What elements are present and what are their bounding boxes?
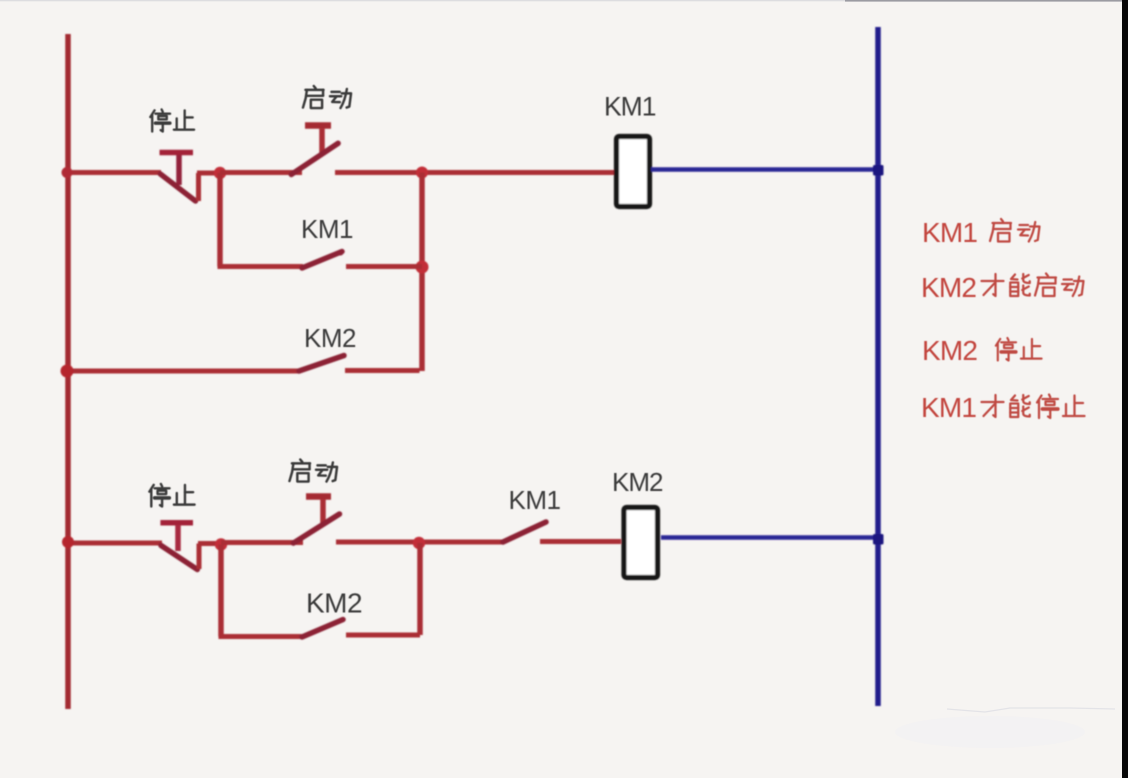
svg-text:KM2: KM2: [921, 272, 976, 303]
wire: KM1 aux branch left: [218, 264, 304, 269]
pushbutton SB3 stem: [175, 525, 181, 551]
top edge scan line: [0, 0, 1128, 1]
wire: start button to KM1 coil: [335, 170, 614, 175]
node: blue junction top: [873, 165, 884, 176]
wire: vertical x220 down to KM1 branch: [217, 173, 223, 267]
wire: KM2 aux branch bottom right: [346, 633, 420, 638]
node J3: [416, 261, 429, 274]
contact KM2 interlock NO blade: [299, 356, 344, 372]
contact KM1 aux blade tip dot: [338, 250, 344, 256]
svg-text:KM1: KM1: [922, 217, 977, 248]
label 停止 (top stop button): [150, 109, 194, 131]
wire: KM1 coil to right rail (blue): [651, 167, 878, 172]
svg-text:KM1: KM1: [604, 92, 656, 122]
wire: top rung left segment: [66, 170, 161, 175]
contact KM1 aux NO blade: [302, 252, 342, 269]
coil KM1: [617, 137, 650, 207]
node J2: [416, 167, 428, 179]
pushbutton SB4 NO blade: [293, 514, 339, 543]
label 停止 (bottom stop button): [149, 484, 194, 507]
right edge black border strip: [1122, 0, 1128, 778]
coil KM2: [624, 508, 658, 578]
annotation line 4: KM1才能停止: [921, 392, 1085, 423]
wire: stub to junction J4: [198, 541, 223, 546]
wire: KM2 aux branch left vertical: [218, 545, 224, 637]
node: left rail / KM2 branch: [61, 365, 74, 378]
node J5: [413, 537, 425, 549]
node J4: [215, 538, 227, 550]
svg-text:KM1: KM1: [509, 485, 561, 515]
wire: KM2 aux branch bottom left: [219, 634, 304, 639]
svg-text:KM1: KM1: [921, 392, 976, 423]
pushbutton SB3 停止 actuator bar: [160, 520, 193, 526]
pushbutton SB1 NC blade: [160, 174, 195, 201]
pushbutton SB1 stem: [176, 155, 182, 185]
node: left rail / top rung: [62, 167, 73, 178]
pushbutton SB2 stem: [319, 128, 325, 154]
wire: SB4 to KM1 contact: [336, 540, 504, 545]
label 启动 (bottom start button): [289, 459, 337, 481]
pushbutton SB1 停止 actuator bar: [160, 150, 194, 156]
watermark smudge (faint): [895, 716, 1085, 748]
right power rail (blue): [875, 27, 881, 706]
watermark scratch line (faint): [947, 708, 1115, 712]
svg-text:KM2: KM2: [306, 588, 362, 619]
contact KM2 aux NO blade: [302, 620, 343, 638]
wire: vertical x422 down to KM2 branch: [419, 173, 425, 372]
wire: KM2 aux branch right vertical: [417, 543, 423, 635]
wire: J4 to start button SB4: [221, 540, 303, 545]
wire: KM2 coil to right rail (blue): [661, 535, 878, 540]
annotation line 3: KM2 停止: [922, 335, 1042, 366]
pushbutton SB2 启动 actuator bar: [305, 122, 331, 129]
svg-text:KM1: KM1: [301, 214, 353, 244]
wire: stub to junction: [197, 171, 222, 176]
annotation line 1: KM1 启动: [922, 217, 1040, 248]
pushbutton SB1 right terminal stub: [196, 173, 201, 201]
annotation line 2: KM2才能启动: [921, 272, 1084, 303]
pushbutton SB4 stem: [320, 499, 326, 524]
wire: KM1 aux branch right: [346, 264, 422, 269]
label 启动 (top start button): [303, 86, 351, 108]
pushbutton SB3 NC blade: [161, 545, 197, 569]
wire: J1 to start button: [220, 170, 302, 175]
node: blue junction bottom: [873, 534, 884, 545]
pushbutton SB3 right terminal stub: [197, 544, 202, 570]
pushbutton SB2 NO blade: [291, 143, 338, 174]
wire: KM1 contact to KM2 coil: [540, 539, 621, 544]
left power rail (red): [65, 34, 71, 709]
pushbutton SB4 启动 actuator bar: [306, 493, 331, 500]
contact KM1 interlock NO blade: [503, 522, 546, 542]
svg-text:KM2: KM2: [304, 323, 356, 353]
svg-text:KM2: KM2: [612, 467, 663, 497]
wire: bottom rung left segment: [66, 541, 162, 546]
node J1: [214, 167, 226, 179]
wire: KM2 interlock branch left: [67, 369, 300, 374]
node: left rail / bottom rung: [62, 536, 74, 548]
wire: KM2 interlock branch right: [345, 368, 420, 374]
svg-text:KM2: KM2: [922, 335, 977, 366]
